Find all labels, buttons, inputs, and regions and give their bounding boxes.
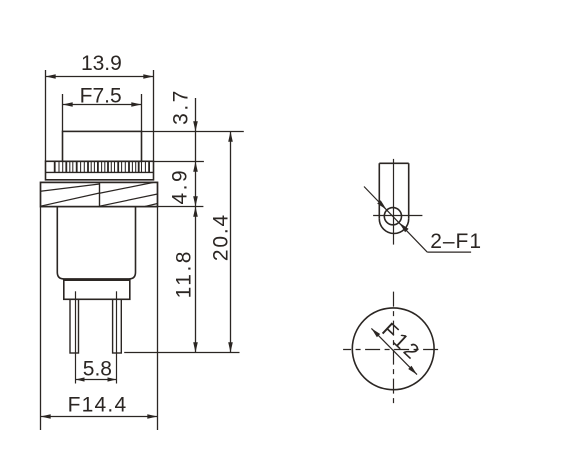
svg-text:13.9: 13.9 (81, 52, 122, 75)
dim 13.9 extension right (153, 70, 155, 162)
knurl ticks (55, 161, 149, 172)
threaded bushing outline (41, 182, 158, 206)
svg-text:3.7: 3.7 (169, 88, 192, 125)
svg-text:20.4: 20.4 (210, 213, 233, 261)
svg-text:F14.4: F14.4 (68, 393, 128, 416)
dim F7.5 extension right (141, 94, 143, 132)
base block outline (64, 280, 130, 299)
thread diagonal right 1 (100, 182, 154, 193)
svg-text:5.8: 5.8 (83, 358, 112, 381)
leader 2-F1 diagonal (364, 187, 427, 253)
pin detail vertical centerline (393, 159, 395, 245)
dim F7.5 extension left (62, 94, 64, 132)
terminal pin right (113, 299, 122, 353)
pin centerline right (116, 291, 118, 383)
dim 5.8 line (76, 377, 117, 381)
pin detail horizontal centerline (373, 215, 422, 217)
extension line bushing bottom (158, 206, 204, 208)
extension line cap top (142, 131, 244, 133)
thread diagonal left 1 (41, 184, 100, 191)
svg-text:2–F1: 2–F1 (430, 230, 482, 253)
front view horizontal centerline (343, 349, 438, 351)
front view vertical centerline (393, 292, 395, 406)
svg-text:4.9: 4.9 (169, 168, 192, 205)
front view circle (352, 308, 434, 390)
dim F7.5 line (63, 102, 142, 107)
dim 13.9 extension left (45, 70, 47, 162)
dim 4.9 line (193, 162, 198, 207)
dim 11.8 line (193, 207, 198, 353)
dim 3.7 line (193, 98, 198, 162)
thread diagonal right 3 (145, 204, 158, 207)
dim F14.4 extension right (157, 207, 159, 430)
thread diagonal left 2 (41, 193, 100, 206)
dim 20.4 line (228, 132, 233, 353)
pin detail hole circle (384, 208, 401, 225)
button cap outline (63, 131, 142, 161)
knurled bezel ring outline (46, 161, 154, 180)
svg-text:F7.5: F7.5 (80, 84, 122, 107)
dim 13.9 line (46, 74, 154, 79)
terminal pin left (70, 299, 79, 353)
leader 2-F1 underline (427, 251, 471, 253)
dim F12 diagonal arrow (371, 328, 417, 374)
extension line bezel top (154, 161, 204, 163)
extension line pin bottom (124, 352, 239, 354)
pin detail body (379, 163, 408, 233)
switch body outline (57, 207, 135, 279)
svg-text:11.8: 11.8 (172, 249, 195, 298)
pin centerline left (75, 291, 77, 383)
thread diagonal right 2 (100, 194, 158, 206)
dim F14.4 line (41, 414, 158, 419)
dim F14.4 extension left (40, 207, 42, 430)
